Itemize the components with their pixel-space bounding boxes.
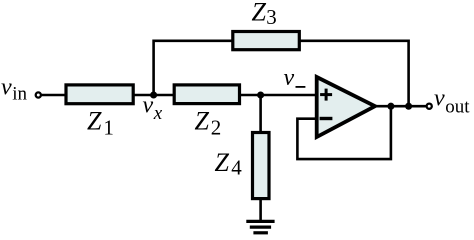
svg-text:Z: Z: [252, 0, 267, 26]
svg-text:v: v: [434, 86, 445, 112]
label Z1: [87, 107, 114, 140]
svg-text:v: v: [143, 92, 154, 118]
label v_in: [1, 74, 27, 104]
ground: [246, 221, 274, 232]
op-amp minus input sign: [320, 117, 333, 120]
wire from Z2 to op-amp non-inverting input: [239, 94, 316, 97]
wire from input terminal to Z1: [41, 94, 66, 97]
label Z4: [215, 148, 243, 179]
output terminal: [427, 104, 432, 109]
svg-text:3: 3: [266, 5, 277, 29]
wire from node to Z4: [259, 95, 262, 133]
svg-text:Z: Z: [215, 148, 230, 177]
impedance Z1: [66, 85, 133, 104]
wire from Z4 to ground: [259, 198, 262, 221]
svg-text:4: 4: [231, 156, 242, 180]
svg-text:out: out: [445, 96, 470, 117]
svg-text:2: 2: [211, 116, 222, 140]
junction node output Z3: [405, 103, 412, 110]
wire from Z3 right and down to output: [300, 41, 409, 106]
junction node v-minus branch: [257, 91, 264, 98]
op-amp U1 body: [317, 77, 375, 137]
wire op-amp output: [371, 105, 427, 108]
junction node vx: [150, 91, 157, 98]
svg-text:Z: Z: [87, 107, 102, 136]
wire node vx up and right to Z3: [154, 41, 232, 95]
op-amp plus input sign: [320, 89, 332, 101]
wire feedback loop to inverting input: [297, 106, 391, 159]
label Z3: [252, 0, 277, 29]
label v_minus: [284, 65, 306, 91]
label v_out: [434, 86, 470, 118]
impedance Z4: [253, 133, 270, 199]
impedance Z2: [174, 85, 239, 104]
svg-text:Z: Z: [195, 107, 210, 136]
svg-text:x: x: [153, 103, 163, 124]
svg-text:1: 1: [103, 115, 114, 139]
junction node output feedback: [387, 103, 394, 110]
label v_x: [143, 92, 163, 124]
label Z2: [195, 107, 222, 140]
svg-text:in: in: [12, 84, 27, 105]
input terminal: [36, 92, 41, 97]
impedance Z3: [233, 32, 299, 50]
svg-text:v: v: [1, 74, 12, 100]
svg-text:v: v: [284, 65, 295, 91]
wire from Z1 to Z2: [133, 94, 176, 97]
